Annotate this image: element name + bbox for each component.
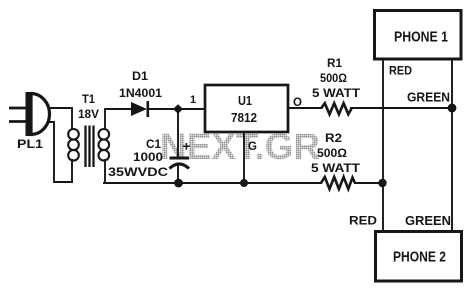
svg-text:C1: C1 (146, 139, 162, 151)
secondary winding (99, 129, 110, 140)
svg-text:GREEN: GREEN (407, 90, 450, 105)
svg-text:D1: D1 (132, 71, 149, 83)
resistor R1 (321, 103, 352, 114)
wire: plug bottom to transformer primary bottom (48, 122, 73, 182)
svg-text:35WVDC: 35WVDC (108, 167, 168, 179)
node: R1/green junction (448, 104, 457, 113)
regulator U1 box (205, 85, 288, 132)
plug PL1 (9, 92, 50, 136)
node: C1/top wire junction (173, 104, 183, 114)
wire: U1 output to R1 (288, 107, 321, 109)
wire: transformer secondary top to diode/U1 (105, 109, 131, 129)
wire: plug top to transformer primary top (48, 108, 72, 129)
svg-text:5 WATT: 5 WATT (312, 88, 360, 100)
wire: C1 branch bottom (177, 166, 179, 183)
svg-text:PHONE 1: PHONE 1 (394, 30, 448, 46)
svg-text:500Ω: 500Ω (317, 148, 347, 160)
svg-text:O: O (293, 97, 302, 109)
wire: C1 branch top (177, 109, 179, 157)
svg-text:RED: RED (389, 64, 412, 78)
resistor R2 (321, 177, 355, 189)
node: C1/ground rail junction (174, 179, 183, 188)
wire: GREEN vertical phone1 to phone2 (451, 60, 453, 231)
node: R2/red junction (378, 179, 386, 187)
wire: R1 to green node (351, 107, 452, 109)
transformer T1 (68, 126, 109, 168)
node: U1 ground/rail junction (240, 179, 248, 187)
svg-text:1: 1 (190, 94, 196, 106)
svg-text:U1: U1 (238, 94, 252, 108)
svg-text:1000: 1000 (133, 152, 163, 164)
svg-text:PL1: PL1 (17, 137, 43, 151)
capacitor C1 (170, 143, 190, 169)
wire: RED vertical phone1 to phone2 (382, 60, 384, 231)
svg-text:18V: 18V (78, 107, 99, 121)
svg-text:RED: RED (349, 214, 377, 228)
svg-text:G: G (248, 141, 257, 153)
wire: U1 ground pin to rail (243, 132, 245, 183)
svg-text:R2: R2 (325, 133, 342, 145)
phone 1 box (375, 11, 462, 60)
svg-text:PHONE 2: PHONE 2 (393, 250, 446, 266)
svg-text:1N4001: 1N4001 (119, 88, 163, 100)
primary winding (68, 129, 79, 140)
svg-text:GREEN: GREEN (405, 213, 451, 228)
wire: diode cathode to U1 pin 1 (149, 108, 205, 110)
svg-text:7812: 7812 (231, 111, 257, 125)
svg-text:5 WATT: 5 WATT (311, 163, 360, 175)
svg-text:R1: R1 (327, 58, 343, 70)
wire: transformer secondary bottom stem (104, 160, 106, 183)
svg-text:T1: T1 (82, 92, 95, 106)
wire: bottom ground rail (104, 182, 382, 184)
phone 2 box (376, 232, 462, 282)
svg-text:500Ω: 500Ω (320, 73, 347, 85)
diode D1 (131, 101, 148, 117)
core (86, 126, 94, 168)
